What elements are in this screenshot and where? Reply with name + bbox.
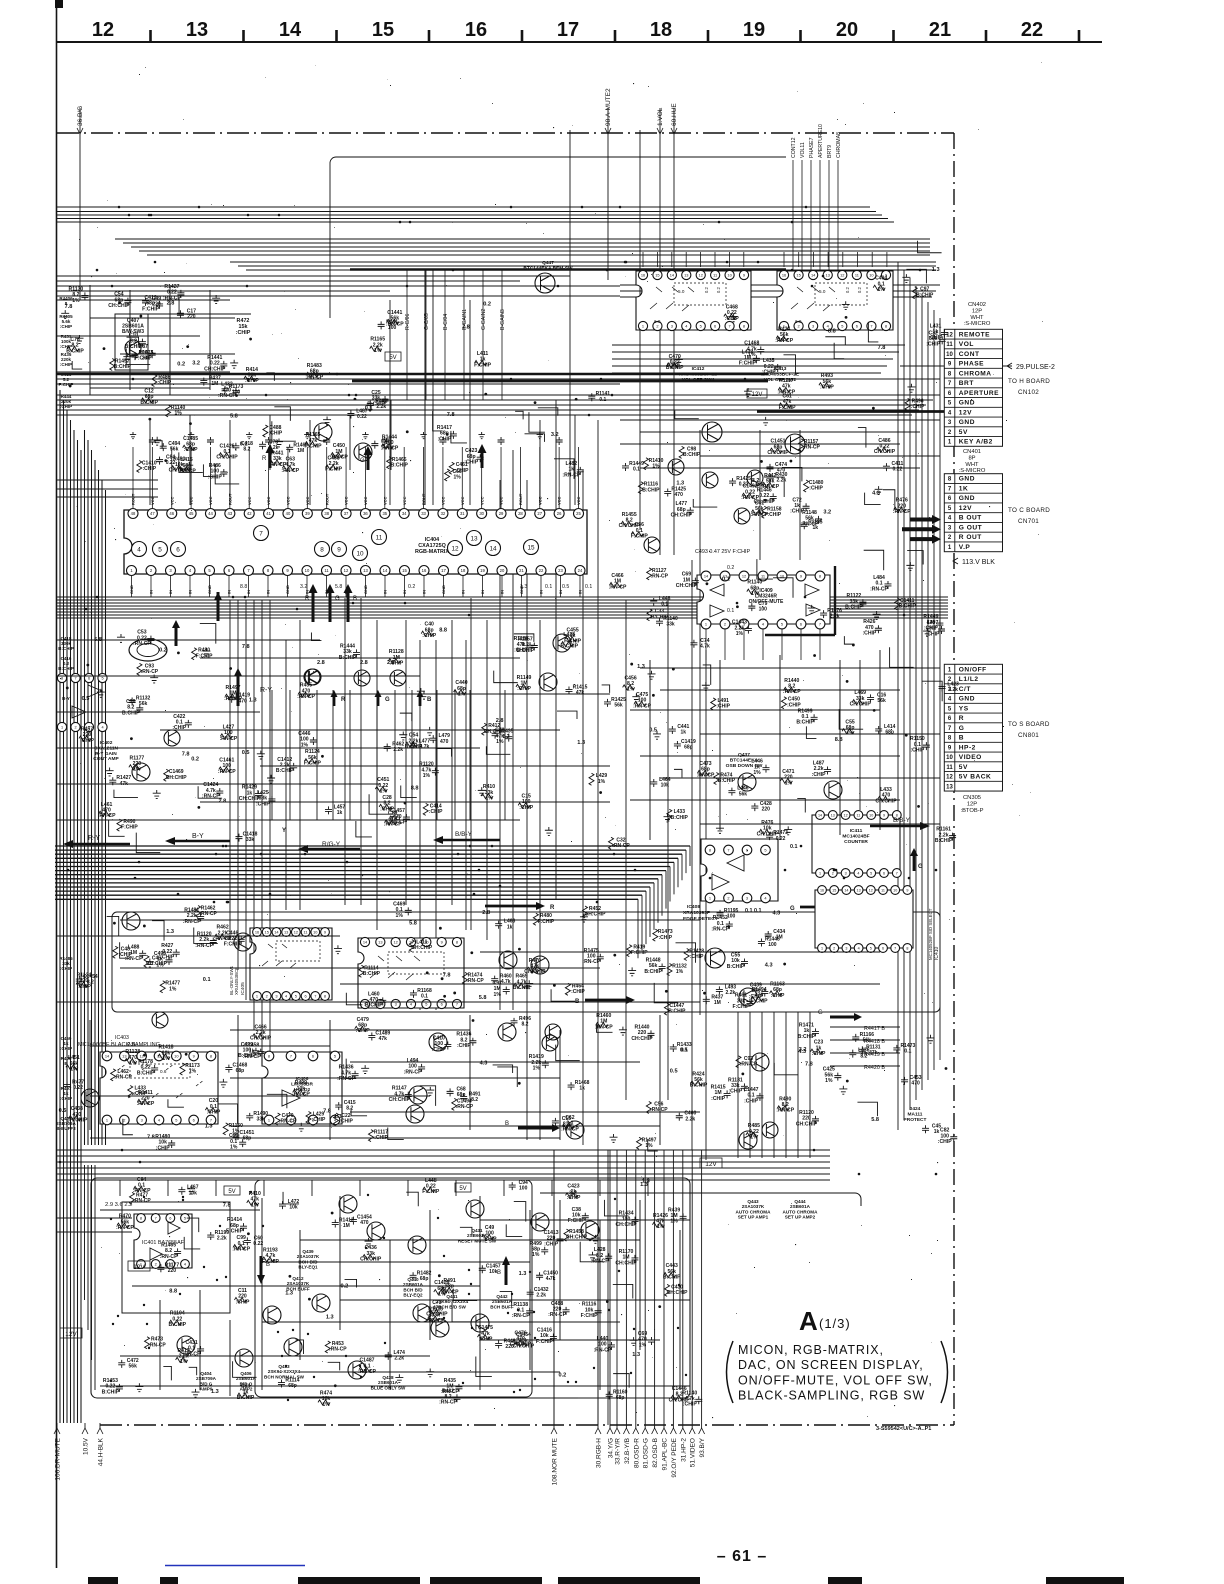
svg-text:12: 12 (840, 272, 844, 277)
svg-text:G OUT: G OUT (959, 525, 982, 532)
svg-text::RN-CP: :RN-CP (133, 1188, 151, 1194)
svg-text:4.7k: 4.7k (546, 1276, 556, 1282)
svg-text::RN-CP: :RN-CP (776, 1108, 794, 1114)
svg-text::RN-CP: :RN-CP (141, 669, 159, 675)
svg-text:0.1: 0.1 (545, 584, 552, 590)
svg-text:11: 11 (946, 765, 953, 771)
svg-text:60.HUE: 60.HUE (671, 103, 678, 126)
svg-text:12: 12 (451, 545, 459, 552)
svg-text:45: 45 (189, 511, 194, 516)
svg-text:IC411: IC411 (850, 828, 863, 834)
svg-text:VCC: VCC (189, 496, 194, 505)
svg-text:100: 100 (768, 942, 777, 948)
svg-text:7: 7 (896, 871, 898, 875)
svg-text:BTC144EKA BEM-SW: BTC144EKA BEM-SW (523, 265, 573, 271)
svg-text:5V: 5V (959, 429, 968, 436)
svg-text:1M: 1M (343, 1223, 350, 1229)
wire thick stub B-Y (217, 592, 220, 618)
svg-text::CHIP: :CHIP (926, 342, 940, 348)
svg-text:0.2: 0.2 (559, 1373, 567, 1379)
svg-text:CONT: CONT (959, 351, 980, 358)
signal 106.DR-MUTE exit (56, 1423, 58, 1428)
svg-text::RN-CP: :RN-CP (219, 736, 237, 742)
svg-text:PROTECT: PROTECT (904, 1117, 927, 1123)
svg-text:F:CHIP: F:CHIP (325, 467, 343, 473)
svg-text:33k: 33k (257, 1116, 266, 1122)
svg-text:COUNTER: COUNTER (844, 839, 868, 845)
signal 82.OSD-B exit (654, 1150, 656, 1428)
svg-text::RN-CP: :RN-CP (133, 1198, 151, 1204)
svg-text:31.HP-2: 31.HP-2 (680, 1438, 687, 1462)
svg-text:5.8: 5.8 (230, 413, 238, 419)
svg-text:TO H BOARD: TO H BOARD (1008, 378, 1050, 385)
top-left corner mark (55, 0, 63, 8)
wire bus below IC404 (57, 596, 948, 598)
svg-text:B:CHIP: B:CHIP (140, 400, 158, 406)
svg-text:IN: IN (461, 590, 466, 594)
svg-text:68p: 68p (885, 730, 894, 736)
svg-text:38: 38 (324, 511, 329, 516)
svg-text::RN-CP: :RN-CP (199, 911, 217, 917)
svg-text:9: 9 (906, 888, 908, 892)
svg-text:10.5V: 10.5V (83, 1437, 90, 1455)
svg-text:B:CHIP: B:CHIP (367, 401, 385, 407)
svg-text:6: 6 (193, 1117, 195, 1122)
arrow G right (830, 1013, 862, 1021)
mid-left component area (494, 671, 518, 683)
transistor Q429 (702, 472, 718, 488)
wire mesh black-sampling row (230, 1029, 470, 1031)
svg-text:1.3: 1.3 (285, 1291, 293, 1297)
svg-text:5V BACK: 5V BACK (959, 774, 991, 781)
svg-text:IC412: IC412 (692, 366, 705, 372)
svg-text:IN: IN (305, 590, 310, 594)
svg-text:34.Y/G: 34.Y/G (608, 1438, 615, 1458)
svg-text:IN: IN (168, 590, 173, 594)
svg-text:1%: 1% (494, 992, 502, 998)
svg-text:0.1: 0.1 (633, 467, 640, 473)
svg-text:42: 42 (247, 511, 252, 516)
svg-text::RN-CP: :RN-CP (183, 1351, 201, 1357)
svg-text:B:CHIP: B:CHIP (644, 969, 662, 975)
svg-text::CHIP: :CHIP (711, 1096, 725, 1102)
svg-text:IN: IN (227, 590, 232, 594)
svg-text:CH:CHIP: CH:CHIP (767, 450, 789, 456)
svg-text:VCC: VCC (208, 496, 213, 505)
svg-text:3.2: 3.2 (823, 510, 831, 516)
svg-text:8: 8 (885, 323, 887, 328)
svg-text:1%: 1% (532, 1252, 540, 1258)
arrow B/B-Y left (433, 836, 500, 844)
svg-text:0.5: 0.5 (82, 696, 90, 702)
transistor Q434 MUTE RGB SW (751, 1053, 769, 1071)
svg-text:16: 16 (782, 272, 786, 277)
svg-text:0.6: 0.6 (160, 1069, 167, 1074)
svg-text::RN-CP: :RN-CP (870, 586, 888, 592)
svg-text:CH:CHIP: CH:CHIP (389, 1097, 411, 1103)
svg-text:CH:CHIP: CH:CHIP (524, 969, 546, 975)
svg-text:BLACK-SAMPLING, RGB SW: BLACK-SAMPLING, RGB SW (738, 1389, 925, 1403)
bottom inner enclosure (255, 1180, 532, 1397)
svg-text:MA111: MA111 (908, 1111, 923, 1117)
wire bus band nested2 (230, 261, 936, 263)
svg-text:MC14052BF SID SELECT: MC14052BF SID SELECT (928, 908, 933, 960)
svg-text:R-Y: R-Y (260, 687, 272, 694)
svg-text:Q437: Q437 (738, 752, 750, 758)
svg-text:1.3: 1.3 (577, 740, 585, 746)
svg-text::RN-CP: :RN-CP (801, 521, 819, 527)
svg-text:100: 100 (759, 607, 768, 613)
arrow up bottom B (502, 1256, 510, 1285)
signal 92.O/Y PEDE exit (672, 1150, 674, 1428)
svg-text:6: 6 (88, 676, 90, 680)
svg-text::RN-CP: :RN-CP (116, 1225, 134, 1231)
svg-text:7: 7 (819, 621, 821, 626)
signal 34.Y/G exit (609, 1150, 611, 1428)
svg-text:35: 35 (382, 511, 387, 516)
svg-text:V.P: V.P (959, 544, 971, 551)
arrow B into IC404 (344, 584, 353, 622)
signal 80.OSD-R exit (635, 1150, 637, 1428)
svg-text:34: 34 (402, 511, 407, 516)
svg-text:1%: 1% (533, 1066, 541, 1072)
svg-text:12V: 12V (65, 1331, 77, 1338)
wire box IC401 (122, 1202, 230, 1313)
svg-text::RN-CP: :RN-CP (427, 1318, 445, 1324)
svg-text:BRT: BRT (959, 380, 974, 387)
svg-text:2: 2 (832, 871, 834, 875)
wire mesh top-left (56, 299, 230, 301)
arrow down bottom (257, 1256, 265, 1284)
svg-text:B-C/04: B-C/04 (443, 314, 449, 330)
svg-text:BLY-EQ2: BLY-EQ2 (403, 1293, 423, 1298)
svg-text:1k: 1k (507, 924, 513, 930)
svg-text:10k: 10k (661, 783, 670, 789)
svg-text:IN: IN (422, 590, 427, 594)
right lower components (857, 1102, 877, 1116)
svg-text:VCC: VCC (305, 496, 310, 505)
svg-text:1.3: 1.3 (166, 929, 174, 935)
wire mesh mid-right (640, 667, 940, 669)
svg-text:B:CHIP: B:CHIP (391, 462, 409, 468)
svg-text:2: 2 (155, 1261, 157, 1266)
svg-text:80.OSD-R: 80.OSD-R (633, 1438, 640, 1468)
svg-text:15: 15 (796, 272, 800, 277)
svg-text:0.2: 0.2 (240, 442, 248, 448)
svg-text:R-Y: R-Y (88, 835, 100, 842)
svg-text:ROUT: ROUT (324, 493, 329, 505)
op-amp IC408 XRA10393F body (701, 839, 778, 901)
svg-text:0.2: 0.2 (159, 648, 167, 654)
svg-text::CHIP: :CHIP (208, 474, 222, 480)
svg-text:2.2k: 2.2k (948, 687, 958, 693)
svg-text:3: 3 (141, 1117, 143, 1122)
svg-text:GND: GND (959, 495, 975, 502)
svg-text:2.2k: 2.2k (777, 477, 787, 483)
svg-text:5: 5 (334, 1053, 336, 1058)
svg-text:XRU4053BCF-E2: XRU4053BCF-E2 (679, 371, 717, 377)
svg-text:12V: 12V (959, 409, 972, 416)
svg-text:56k: 56k (739, 791, 748, 797)
svg-text:1%: 1% (736, 631, 744, 637)
svg-text:C/T: C/T (959, 686, 971, 693)
connector CN402 to H board table (944, 329, 1002, 446)
svg-text:CN305: CN305 (963, 795, 981, 801)
svg-text::RN-CP: :RN-CP (441, 1289, 459, 1295)
svg-text::RN-CP: :RN-CP (114, 1075, 132, 1081)
svg-text:12: 12 (946, 775, 953, 781)
svg-text:1.3: 1.3 (334, 1114, 342, 1120)
wire left vertical bundle (59, 390, 61, 1423)
svg-text::RN-CP: :RN-CP (232, 1247, 250, 1253)
transistor Q407 2SB601A (125, 340, 141, 356)
svg-text:5.0: 5.0 (678, 289, 685, 294)
svg-text:GND: GND (959, 696, 975, 703)
transistor Q414 cluster (305, 669, 321, 685)
svg-text:CN801: CN801 (1018, 732, 1039, 739)
svg-text:2.8: 2.8 (317, 660, 325, 666)
svg-text:CONT AMP: CONT AMP (93, 756, 119, 762)
svg-text::RN-CP: :RN-CP (593, 1347, 611, 1353)
svg-text:47k: 47k (869, 1050, 878, 1056)
svg-text:1.3: 1.3 (519, 1271, 527, 1277)
svg-text:56k: 56k (863, 1038, 872, 1044)
svg-text:8.8: 8.8 (835, 737, 843, 743)
svg-text:CH:CHIP: CH:CHIP (875, 798, 897, 804)
svg-text:B:CHIP: B:CHIP (935, 838, 953, 844)
svg-text:0.22: 0.22 (166, 460, 176, 466)
svg-text:1%: 1% (230, 1145, 238, 1151)
svg-text:8: 8 (324, 993, 326, 998)
svg-text:5: 5 (781, 621, 783, 626)
svg-text:CHROMA8: CHROMA8 (836, 132, 842, 158)
svg-text:8: 8 (743, 323, 745, 328)
svg-text:CH:CHIP: CH:CHIP (66, 1118, 88, 1124)
svg-text:40: 40 (286, 511, 291, 516)
signal 93.B/Y exit (701, 1150, 703, 1428)
svg-text:44: 44 (208, 511, 213, 516)
svg-text:R: R (341, 697, 346, 703)
svg-text:8: 8 (268, 1053, 270, 1058)
transistor Q427 MA111 PROTECT (122, 912, 140, 930)
svg-text:3: 3 (746, 895, 748, 900)
IC body (262, 1052, 342, 1124)
signal 44.H-BLK exit (99, 1423, 101, 1428)
svg-text:Y: Y (282, 828, 286, 834)
svg-text:IN: IN (246, 590, 251, 594)
signal 36.B/G entry (79, 108, 81, 300)
svg-text:9: 9 (883, 813, 885, 817)
scan noise specks (60, 62, 1043, 1418)
svg-text:6: 6 (800, 621, 802, 626)
svg-text:B/B-Y: B/B-Y (455, 831, 473, 838)
svg-text:BL-ONLY-SW1: BL-ONLY-SW1 (229, 965, 234, 995)
svg-text:33k: 33k (666, 622, 675, 628)
svg-text:5: 5 (870, 871, 872, 875)
svg-text:B:CHIP: B:CHIP (663, 1275, 681, 1281)
svg-text:IC405: IC405 (240, 982, 246, 995)
svg-text:IN: IN (266, 590, 271, 594)
svg-text:DAC, ON SCREEN DISPLAY,: DAC, ON SCREEN DISPLAY, (738, 1358, 924, 1372)
svg-text:WHT: WHT (970, 315, 984, 321)
svg-text:14: 14 (844, 888, 848, 892)
svg-text::RN-CP: :RN-CP (633, 703, 651, 709)
components right of IC404 top (801, 521, 808, 529)
svg-text:7.8: 7.8 (182, 751, 190, 757)
svg-text:12V: 12V (133, 1264, 145, 1271)
svg-text:11: 11 (376, 534, 383, 541)
transistor Q417 B-BUFF4 (409, 1086, 427, 1104)
transistor Q426 (354, 443, 372, 461)
svg-text:B:CHIP: B:CHIP (114, 364, 132, 370)
svg-text:5: 5 (295, 993, 297, 998)
bus labels above IC413 (792, 160, 794, 270)
svg-text:220: 220 (187, 314, 196, 320)
transistor Q408 BLANKING4 (545, 1024, 561, 1040)
IC412 IC413 top pin stubs (642, 252, 644, 267)
svg-text:7: 7 (290, 1053, 292, 1058)
svg-text:13: 13 (378, 939, 382, 944)
svg-text:8.2: 8.2 (860, 1053, 867, 1059)
svg-text::CHIP: :CHIP (862, 631, 876, 637)
svg-text:30.RGB-H: 30.RGB-H (596, 1438, 603, 1468)
svg-text::RN-CP: :RN-CP (218, 393, 236, 399)
svg-text:5: 5 (175, 1117, 177, 1122)
svg-text:R-C/06: R-C/06 (405, 313, 411, 330)
svg-text:5: 5 (700, 323, 702, 328)
svg-text:F:CHIP: F:CHIP (224, 942, 242, 948)
svg-text:1M: 1M (211, 381, 218, 387)
transistor row mid (644, 537, 660, 553)
svg-text:15: 15 (402, 568, 407, 573)
svg-text:32.B-Y/B: 32.B-Y/B (624, 1438, 631, 1464)
svg-text:7.8: 7.8 (878, 345, 886, 351)
svg-text:VCC: VCC (363, 496, 368, 505)
svg-text:8.2: 8.2 (346, 1106, 353, 1112)
svg-text::RN-CP: :RN-CP (292, 1092, 310, 1098)
svg-text:7: 7 (870, 323, 872, 328)
svg-text:0.1: 0.1 (681, 1048, 688, 1054)
svg-text:10: 10 (946, 755, 953, 761)
bus elbow to IC412 (330, 157, 786, 318)
svg-text:46: 46 (169, 511, 174, 516)
svg-text:5V: 5V (228, 1189, 235, 1195)
svg-text:0.2: 0.2 (845, 287, 850, 293)
svg-text:VOL OFF SW4: VOL OFF SW4 (682, 377, 715, 383)
wire lines below IC412 (620, 284, 940, 286)
svg-text:5: 5 (841, 323, 843, 328)
svg-text:VCC: VCC (402, 496, 407, 505)
svg-text:0.1: 0.1 (727, 608, 734, 614)
svg-text:CH:CHIP: CH:CHIP (204, 366, 226, 372)
svg-text:5.8: 5.8 (335, 584, 342, 590)
svg-text::CHIP: :CHIP (269, 431, 283, 437)
svg-text:B:CHIP: B:CHIP (899, 603, 917, 609)
svg-text:IN: IN (149, 590, 154, 594)
svg-text:IN: IN (480, 590, 485, 594)
svg-text:B:CHIP: B:CHIP (845, 605, 863, 611)
signal 1.VOL entry (659, 108, 661, 555)
svg-text:56k: 56k (170, 447, 179, 453)
svg-text:2.2k: 2.2k (685, 1116, 695, 1122)
svg-text::RN-CP: :RN-CP (243, 1054, 261, 1060)
svg-text:12V: 12V (959, 505, 972, 512)
svg-text:6: 6 (304, 993, 306, 998)
svg-text:12: 12 (699, 272, 703, 277)
svg-text:R: R (305, 596, 310, 602)
svg-text:56k: 56k (614, 703, 623, 709)
svg-text:13: 13 (470, 535, 478, 542)
svg-text:15: 15 (265, 929, 269, 934)
arrow R into IC404 (309, 584, 318, 622)
svg-text:13: 13 (684, 272, 688, 277)
IC body (250, 928, 332, 1000)
svg-text:B:CHIP: B:CHIP (58, 666, 74, 671)
svg-text:B: B (427, 697, 432, 703)
svg-text:8.8: 8.8 (240, 584, 247, 590)
svg-text:13: 13 (284, 929, 288, 934)
svg-text:B:CHIP: B:CHIP (363, 971, 381, 977)
svg-text:13: 13 (186, 19, 208, 41)
svg-text:0.2: 0.2 (667, 363, 675, 369)
svg-text:F:CHIP: F:CHIP (564, 639, 582, 645)
svg-text:RGB-MATRIX: RGB-MATRIX (415, 549, 449, 555)
svg-text:VCC: VCC (150, 496, 155, 505)
svg-text:3.2: 3.2 (551, 432, 559, 438)
svg-text:B:CHIP: B:CHIP (671, 815, 689, 821)
svg-text:11: 11 (304, 929, 308, 934)
svg-text:9: 9 (743, 272, 745, 277)
svg-text:8.8: 8.8 (439, 628, 447, 634)
svg-text:2.2k: 2.2k (726, 990, 736, 996)
svg-text:93.B/Y: 93.B/Y (699, 1437, 706, 1457)
svg-text:3: 3 (812, 323, 814, 328)
svg-text:470: 470 (440, 739, 449, 745)
svg-text:2: 2 (833, 946, 835, 950)
svg-text::CHIP: :CHIP (544, 1241, 558, 1247)
svg-text:7: 7 (259, 530, 263, 537)
transistor right edge (542, 1035, 558, 1051)
transistor Q437 OSB DOWN SW (738, 773, 756, 791)
svg-text::RN-CP: :RN-CP (775, 338, 793, 344)
arrow B mid band (585, 996, 635, 1004)
dash-dot schematic border right (953, 133, 955, 1425)
transistor Q428 (164, 730, 180, 746)
svg-text::CHIP: :CHIP (437, 436, 451, 442)
IC body (100, 1052, 218, 1124)
svg-text:11: 11 (946, 342, 953, 348)
svg-text:8: 8 (709, 847, 711, 852)
svg-text:VCC: VCC (344, 496, 349, 505)
svg-text:G: G (385, 697, 390, 703)
wire box around Q407 (115, 314, 148, 370)
svg-text:68p: 68p (236, 1068, 245, 1074)
svg-text:CN401: CN401 (963, 449, 981, 455)
svg-text:B:CHIP: B:CHIP (58, 646, 74, 651)
svg-text:F:CHIP: F:CHIP (121, 825, 138, 831)
svg-text:CH:CHIP: CH:CHIP (850, 702, 872, 708)
svg-text:5: 5 (158, 546, 162, 553)
svg-text::CHIP: :CHIP (911, 404, 925, 410)
svg-text:5: 5 (764, 847, 766, 852)
svg-text:18: 18 (461, 568, 466, 573)
svg-text:1%: 1% (748, 352, 756, 358)
arrow G above IC404 (364, 446, 373, 470)
svg-text:6: 6 (746, 847, 748, 852)
bottom blue artifact line (165, 1565, 305, 1567)
svg-text:0.2: 0.2 (341, 1284, 349, 1290)
vertical labels R-C G-C (406, 270, 408, 400)
